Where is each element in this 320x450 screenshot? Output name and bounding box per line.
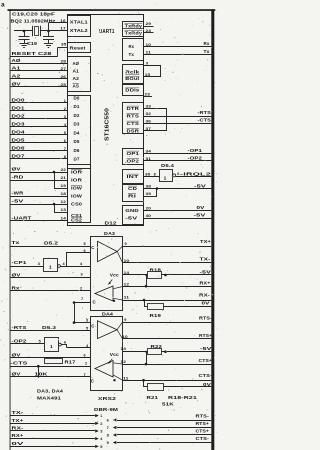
svg-text:AØ: AØ bbox=[73, 61, 80, 66]
svg-text:CTS: CTS bbox=[127, 121, 140, 126]
pin box XTAL bbox=[68, 16, 91, 37]
svg-text:IOW: IOW bbox=[71, 193, 82, 198]
svg-text:CTS+: CTS+ bbox=[199, 358, 213, 363]
svg-text:22: 22 bbox=[61, 168, 67, 172]
wire OP2 pin 31 to -OP2 bbox=[143, 160, 211, 162]
Vcc arrow DA3 bbox=[109, 280, 113, 285]
node -5V branch bbox=[53, 203, 56, 206]
svg-text:14: 14 bbox=[121, 347, 127, 351]
svg-text:GND: GND bbox=[125, 208, 139, 213]
svg-text:DO4: DO4 bbox=[12, 130, 25, 135]
svg-text:0V: 0V bbox=[12, 441, 26, 446]
wire gate output to DA3 pin 4 bbox=[60, 266, 90, 268]
svg-text:0V: 0V bbox=[197, 205, 205, 210]
wire RX- from pin 11 bbox=[123, 300, 212, 302]
svg-text:21: 21 bbox=[61, 176, 67, 180]
svg-text:19: 19 bbox=[61, 184, 67, 188]
svg-text:10: 10 bbox=[122, 335, 128, 339]
svg-text:8: 8 bbox=[154, 172, 156, 176]
wire Tx pin 11 bbox=[143, 54, 211, 56]
wire branch to pin 13 bbox=[54, 204, 56, 212]
svg-text:Vcc: Vcc bbox=[110, 272, 119, 277]
node R22 right bbox=[164, 350, 167, 353]
svg-text:RI: RI bbox=[128, 193, 136, 198]
svg-text:Tx: Tx bbox=[204, 49, 211, 54]
svg-text:DO6: DO6 bbox=[12, 146, 25, 151]
svg-text:16: 16 bbox=[60, 19, 66, 23]
pin stub 24 TxRdy bbox=[143, 32, 153, 34]
svg-text:Rclk: Rclk bbox=[125, 70, 140, 75]
svg-text:0V: 0V bbox=[202, 301, 210, 306]
wire crystal left segment bbox=[14, 30, 32, 32]
svg-text:OP1: OP1 bbox=[127, 151, 140, 156]
wire CD pin 38 to -5V bbox=[143, 188, 211, 190]
svg-text:XTAL2: XTAL2 bbox=[70, 28, 89, 33]
svg-text:RX-: RX- bbox=[12, 426, 25, 431]
svg-text:12: 12 bbox=[124, 282, 130, 286]
driver triangle DA3 bbox=[98, 241, 118, 261]
svg-text:Rx: Rx bbox=[204, 41, 210, 46]
svg-text:D6: D6 bbox=[74, 148, 81, 153]
svg-text:13: 13 bbox=[61, 208, 67, 212]
wire crystal right segment bbox=[41, 30, 68, 32]
wire branch to pin 19 bbox=[54, 172, 56, 188]
wire R22 drop to CTS+ bbox=[146, 352, 148, 364]
svg-text:7: 7 bbox=[81, 297, 83, 301]
svg-text:RX-: RX- bbox=[199, 293, 211, 298]
wire reset net bbox=[10, 56, 58, 58]
svg-text:1: 1 bbox=[64, 99, 66, 103]
svg-text:-RTS: -RTS bbox=[12, 325, 27, 330]
wire XTAL1 to pin 16 bbox=[48, 23, 50, 32]
svg-text:10K: 10K bbox=[35, 371, 49, 376]
svg-text:ØV: ØV bbox=[12, 272, 22, 277]
node RX+ junction bbox=[145, 285, 148, 288]
pin box CD RI bbox=[123, 185, 144, 202]
svg-text:38: 38 bbox=[146, 185, 152, 189]
wire DA4 pin 4 bbox=[67, 347, 90, 349]
svg-text:27: 27 bbox=[61, 67, 67, 71]
svg-text:33: 33 bbox=[146, 105, 152, 109]
svg-text:9: 9 bbox=[124, 318, 126, 322]
resistor R19 bbox=[148, 304, 164, 310]
svg-text:Tx: Tx bbox=[12, 240, 20, 245]
node DA4 pin3 junction bbox=[73, 321, 76, 324]
svg-text:37: 37 bbox=[146, 127, 152, 131]
svg-text:RX+: RX+ bbox=[200, 281, 211, 286]
wire DA4 receiver fan CTS+ bbox=[113, 363, 123, 364]
svg-text:DO3: DO3 bbox=[12, 122, 25, 127]
svg-text:-OP1: -OP1 bbox=[188, 148, 203, 153]
resistor R22 bbox=[148, 349, 162, 355]
svg-text:17: 17 bbox=[60, 27, 66, 31]
svg-text:D5.3: D5.3 bbox=[42, 325, 56, 330]
svg-text:Tx: Tx bbox=[129, 52, 135, 57]
wire DA3 pin 7 stub bbox=[74, 302, 90, 304]
svg-text:C19,C20 18pF: C19,C20 18pF bbox=[12, 12, 55, 17]
svg-text:-WR: -WR bbox=[12, 191, 25, 196]
svg-text:ØV: ØV bbox=[12, 371, 22, 376]
svg-text:DA4: DA4 bbox=[102, 311, 113, 317]
svg-text:-5V: -5V bbox=[200, 269, 212, 274]
svg-text:25: 25 bbox=[61, 83, 67, 87]
pin box INT bbox=[123, 170, 144, 184]
svg-text:RTS: RTS bbox=[127, 113, 140, 118]
svg-text:8: 8 bbox=[64, 155, 66, 159]
wire OP1 pin 34 to -OP1 bbox=[143, 153, 211, 155]
svg-text:DO1: DO1 bbox=[12, 106, 25, 111]
wire -IRQL2 bbox=[176, 176, 212, 178]
svg-text:D4: D4 bbox=[74, 130, 81, 135]
svg-text:D3: D3 bbox=[74, 122, 81, 127]
svg-text:40: 40 bbox=[146, 214, 152, 218]
svg-text:ØV: ØV bbox=[12, 82, 22, 87]
pin stub 29 TxRdy bbox=[143, 26, 153, 28]
wire driver out fan TX+ bbox=[117, 246, 122, 252]
svg-text:10: 10 bbox=[124, 259, 130, 263]
wire RI pin 39 bbox=[143, 196, 157, 198]
svg-text:6: 6 bbox=[84, 354, 86, 358]
node R17 tap bbox=[37, 365, 40, 368]
resistor R18 bbox=[148, 272, 162, 279]
svg-text:-CP1: -CP1 bbox=[12, 260, 27, 265]
svg-text:INT: INT bbox=[127, 174, 140, 179]
svg-text:AS: AS bbox=[73, 83, 80, 88]
svg-text:RESET C28: RESET C28 bbox=[12, 51, 53, 56]
svg-text:TX-: TX- bbox=[12, 410, 25, 415]
svg-text:7: 7 bbox=[84, 373, 86, 377]
svg-text:3: 3 bbox=[86, 319, 88, 323]
svg-text:RTS+: RTS+ bbox=[196, 421, 210, 426]
node 0V branch bbox=[53, 171, 56, 174]
pin box Rclk BOut bbox=[123, 65, 144, 84]
svg-text:DDis: DDis bbox=[125, 88, 140, 93]
wire CTS+ from pin 12 bbox=[123, 364, 212, 366]
pin box GND VCC bbox=[123, 206, 144, 225]
svg-text:2: 2 bbox=[85, 361, 87, 365]
inverter D5.2 bbox=[44, 259, 58, 272]
svg-text:24: 24 bbox=[146, 29, 152, 33]
wire DA3 pin 6 stub bbox=[66, 252, 90, 254]
svg-text:7: 7 bbox=[107, 425, 109, 430]
wire TX+ from pin 9 bbox=[123, 246, 212, 248]
resistor R21 bbox=[148, 384, 164, 391]
svg-text:14: 14 bbox=[61, 217, 67, 221]
svg-text:D2: D2 bbox=[74, 113, 81, 118]
receiver triangle DA4 bbox=[95, 361, 113, 378]
svg-text:5: 5 bbox=[39, 340, 41, 344]
svg-text:1: 1 bbox=[164, 175, 167, 181]
wire R18 drop to RX+ bbox=[146, 275, 148, 286]
wire TX- from pin 10 bbox=[123, 262, 212, 264]
svg-text:TxRdy: TxRdy bbox=[125, 23, 143, 28]
svg-text:UART1: UART1 bbox=[99, 29, 115, 35]
svg-text:-5V: -5V bbox=[194, 183, 206, 188]
wire gate riser bbox=[66, 253, 68, 266]
top border line bbox=[8, 9, 216, 11]
svg-text:IOR: IOR bbox=[71, 177, 82, 182]
node CD RI tie bbox=[156, 187, 159, 190]
wire Rx pin 10 bbox=[143, 46, 211, 48]
svg-text:5: 5 bbox=[64, 131, 66, 135]
svg-text:36: 36 bbox=[146, 120, 152, 124]
svg-text:RX+: RX+ bbox=[12, 433, 24, 438]
pin box address bbox=[68, 57, 91, 92]
wire receiver in fan RX+ bbox=[113, 287, 123, 289]
crystal BQ2 bbox=[32, 26, 34, 36]
node RX- junction bbox=[143, 299, 146, 302]
svg-text:DSR: DSR bbox=[127, 128, 140, 133]
pin box IOR IOW CS bbox=[68, 165, 91, 223]
svg-text:9: 9 bbox=[146, 62, 148, 66]
wire RTS- from pin 9 bbox=[123, 322, 212, 324]
svg-text:51K: 51K bbox=[162, 401, 175, 406]
node R18 left bbox=[145, 274, 147, 276]
svg-text:3: 3 bbox=[38, 262, 40, 266]
svg-text:-5V: -5V bbox=[12, 199, 25, 204]
svg-text:XRS2: XRS2 bbox=[98, 396, 116, 401]
svg-text:5: 5 bbox=[84, 242, 86, 246]
svg-text:3: 3 bbox=[81, 273, 83, 277]
svg-text:R18-R21: R18-R21 bbox=[168, 395, 198, 400]
svg-text:34: 34 bbox=[146, 150, 152, 154]
svg-text:DTR: DTR bbox=[127, 106, 140, 111]
svg-text:ST16C550: ST16C550 bbox=[105, 108, 111, 141]
svg-text:-5V: -5V bbox=[125, 216, 137, 221]
wire RX+ from pin 12 bbox=[123, 286, 212, 288]
wire DA4 receiver fan CTS- bbox=[113, 375, 123, 380]
svg-text:Reset: Reset bbox=[70, 46, 87, 51]
pin box DDis bbox=[123, 85, 144, 96]
svg-text:ØV: ØV bbox=[12, 167, 22, 172]
svg-text:-5V: -5V bbox=[200, 346, 212, 351]
op-amp U1 UART chip outline bbox=[68, 15, 144, 226]
transceiver DA3 outline bbox=[91, 237, 123, 311]
pin box TxRdy RxRdy bbox=[123, 22, 144, 37]
svg-text:6: 6 bbox=[64, 139, 66, 143]
svg-text:2: 2 bbox=[64, 107, 66, 111]
svg-text:D12: D12 bbox=[105, 221, 117, 226]
svg-text:DO7: DO7 bbox=[12, 154, 25, 159]
svg-text:A1: A1 bbox=[12, 66, 22, 71]
wire VCC pin 40 to -5V bbox=[143, 218, 211, 220]
svg-text:12: 12 bbox=[61, 200, 67, 204]
svg-text:18: 18 bbox=[61, 192, 67, 196]
svg-text:D5.4: D5.4 bbox=[161, 163, 175, 168]
svg-text:26: 26 bbox=[61, 75, 67, 79]
svg-text:35: 35 bbox=[61, 42, 67, 46]
svg-text:0V: 0V bbox=[203, 382, 211, 387]
pin box Reset bbox=[68, 43, 91, 53]
transceiver DA4 outline bbox=[91, 317, 123, 391]
svg-text:-RTS: -RTS bbox=[198, 110, 212, 115]
ground for C20 bbox=[44, 43, 53, 45]
wire baud loop Rclk to BOut bbox=[143, 65, 161, 67]
svg-text:C19: C19 bbox=[27, 41, 38, 46]
capacitor C20 bbox=[48, 31, 50, 37]
svg-text:DO5: DO5 bbox=[12, 138, 25, 143]
svg-text:Rx: Rx bbox=[12, 285, 20, 290]
svg-text:DA3: DA3 bbox=[104, 231, 115, 237]
svg-text:-CTS: -CTS bbox=[198, 118, 212, 123]
pin box modem DTR RTS CTS DSR bbox=[123, 103, 144, 134]
node CTS+ junction bbox=[145, 363, 148, 366]
Vcc arrow DA4 bbox=[109, 359, 113, 364]
svg-text:-OP2: -OP2 bbox=[188, 156, 203, 161]
svg-text:9: 9 bbox=[125, 242, 127, 246]
svg-text:RTS-: RTS- bbox=[199, 316, 213, 321]
wire RTS pin 32 to -RTS bbox=[143, 116, 211, 118]
capacitor C19 bbox=[24, 31, 26, 37]
wire ground riser between DA3 and DA4 bbox=[74, 303, 76, 323]
svg-text:R22: R22 bbox=[151, 344, 163, 349]
wire CTS pin 36 to -CTS bbox=[143, 123, 211, 125]
svg-text:29: 29 bbox=[146, 22, 152, 26]
wire R17 pulldown bbox=[38, 366, 40, 378]
svg-text:10: 10 bbox=[146, 43, 152, 47]
svg-text:TX+: TX+ bbox=[12, 418, 24, 423]
svg-text:-OP2: -OP2 bbox=[12, 338, 27, 343]
svg-text:12: 12 bbox=[121, 360, 127, 364]
svg-text:OP2: OP2 bbox=[127, 158, 140, 163]
svg-text:14: 14 bbox=[124, 271, 130, 275]
svg-text:30: 30 bbox=[145, 172, 151, 176]
ground for C19 bbox=[20, 43, 29, 45]
svg-text:-5V: -5V bbox=[194, 213, 206, 218]
svg-text:IOR: IOR bbox=[71, 169, 82, 174]
svg-text:R17: R17 bbox=[65, 359, 77, 364]
svg-text:6: 6 bbox=[84, 249, 86, 253]
svg-text:RTS-: RTS- bbox=[196, 414, 210, 419]
wire GND pin 20 to 0V bbox=[143, 210, 211, 212]
svg-text:XTAL1: XTAL1 bbox=[70, 20, 89, 25]
svg-text:2: 2 bbox=[80, 287, 82, 291]
wire DA4 driver fan RTS+ bbox=[117, 330, 123, 339]
svg-text:7: 7 bbox=[64, 147, 66, 151]
receiver triangle DA3 bbox=[95, 286, 113, 301]
svg-text:IOW: IOW bbox=[71, 185, 82, 190]
svg-text:R21: R21 bbox=[147, 395, 159, 400]
wire DA4 driver fan RTS- bbox=[117, 322, 123, 330]
svg-text:a: a bbox=[1, 2, 5, 9]
inverter D5.3 bbox=[45, 338, 59, 352]
svg-text:CD: CD bbox=[128, 186, 137, 191]
svg-text:Rx: Rx bbox=[129, 44, 135, 49]
wire DTR-DSR tie vertical bbox=[166, 109, 168, 132]
svg-text:11: 11 bbox=[124, 296, 130, 300]
svg-text:DO0: DO0 bbox=[12, 98, 25, 103]
node crystal right junction bbox=[47, 30, 50, 33]
left border line bbox=[9, 9, 12, 450]
node R18 right bbox=[164, 274, 167, 277]
wire INT pin 30 to gate bbox=[143, 176, 159, 178]
wire RTS+ from pin 10 bbox=[123, 338, 212, 340]
wire DA4 pin 3 stub bbox=[74, 322, 90, 324]
svg-text:R19: R19 bbox=[150, 313, 162, 318]
svg-text:TX-: TX- bbox=[200, 256, 212, 261]
svg-text:31: 31 bbox=[146, 157, 152, 161]
wire DTR pin 33 bbox=[143, 108, 167, 110]
wire DSR pin 37 bbox=[143, 130, 167, 132]
wire driver out fan TX- bbox=[117, 252, 122, 263]
svg-text:-RD: -RD bbox=[12, 175, 25, 180]
svg-text:28: 28 bbox=[61, 60, 67, 64]
driver triangle DA4 bbox=[98, 321, 118, 339]
wire -5V rail pin 14 DA4 bbox=[123, 351, 148, 353]
svg-text:20: 20 bbox=[146, 207, 152, 211]
resistor R17 bbox=[45, 359, 63, 364]
svg-text:D5: D5 bbox=[74, 139, 81, 144]
pin box data D0-D7 bbox=[68, 96, 91, 169]
svg-text:11: 11 bbox=[123, 376, 129, 380]
svg-text:D5.2: D5.2 bbox=[44, 240, 58, 245]
svg-text:DO2: DO2 bbox=[12, 114, 25, 119]
node DA3 pin7 junction bbox=[73, 301, 76, 304]
svg-text:CTS+: CTS+ bbox=[196, 429, 210, 434]
wire CTS- from pin 11 bbox=[123, 380, 212, 382]
svg-text:CTS-: CTS- bbox=[196, 436, 210, 441]
svg-text:A2: A2 bbox=[73, 76, 80, 81]
node CTS- junction bbox=[142, 379, 145, 382]
wire 0V rail DA3 bbox=[164, 306, 212, 308]
svg-text:23: 23 bbox=[145, 92, 151, 96]
svg-text:CS0: CS0 bbox=[71, 201, 83, 206]
svg-text:1: 1 bbox=[50, 344, 53, 350]
node fan junction DA4 bbox=[113, 379, 115, 381]
svg-text:CTS-: CTS- bbox=[199, 373, 213, 378]
svg-text:D0: D0 bbox=[74, 95, 81, 100]
svg-text:1: 1 bbox=[49, 264, 52, 270]
svg-text:-UART: -UART bbox=[12, 215, 32, 220]
svg-text:Vcc: Vcc bbox=[110, 352, 119, 357]
node R22 left bbox=[145, 351, 147, 353]
svg-text:3: 3 bbox=[64, 115, 66, 119]
wire R19 drop bbox=[144, 300, 146, 306]
svg-text:CS2: CS2 bbox=[71, 218, 83, 223]
svg-text:A1: A1 bbox=[73, 68, 80, 73]
pin box Rx Tx bbox=[123, 39, 144, 61]
svg-text:A2: A2 bbox=[12, 74, 22, 79]
wire 0V rail DA4 bbox=[164, 386, 212, 388]
svg-text:R18: R18 bbox=[150, 268, 162, 273]
right border line bbox=[211, 9, 214, 450]
wire gate D5.3 output bbox=[61, 344, 67, 346]
svg-text:D1: D1 bbox=[74, 104, 81, 109]
svg-text:DA3, DA4: DA3, DA4 bbox=[37, 388, 63, 393]
svg-text:15: 15 bbox=[145, 73, 151, 77]
svg-text:-CTS: -CTS bbox=[11, 361, 28, 366]
svg-text:ØV: ØV bbox=[12, 353, 22, 358]
svg-text:-IRQL2: -IRQL2 bbox=[180, 171, 212, 176]
svg-text:6: 6 bbox=[64, 341, 66, 345]
pin box OP1 OP2 bbox=[123, 149, 144, 165]
svg-text:BOut: BOut bbox=[125, 76, 140, 81]
svg-text:5: 5 bbox=[86, 327, 88, 331]
wire receiver in fan RX- bbox=[113, 298, 123, 300]
pin stub 23 DDis bbox=[143, 96, 152, 98]
svg-text:TX+: TX+ bbox=[200, 239, 211, 244]
wire R21 drop bbox=[143, 380, 145, 387]
wire -5V rail pin 14 bbox=[123, 274, 148, 276]
node crystal left junction bbox=[23, 30, 26, 33]
svg-text:AØ: AØ bbox=[12, 58, 21, 63]
svg-text:TxRdy: TxRdy bbox=[125, 31, 143, 36]
node fan junction DA3 bbox=[113, 300, 115, 302]
